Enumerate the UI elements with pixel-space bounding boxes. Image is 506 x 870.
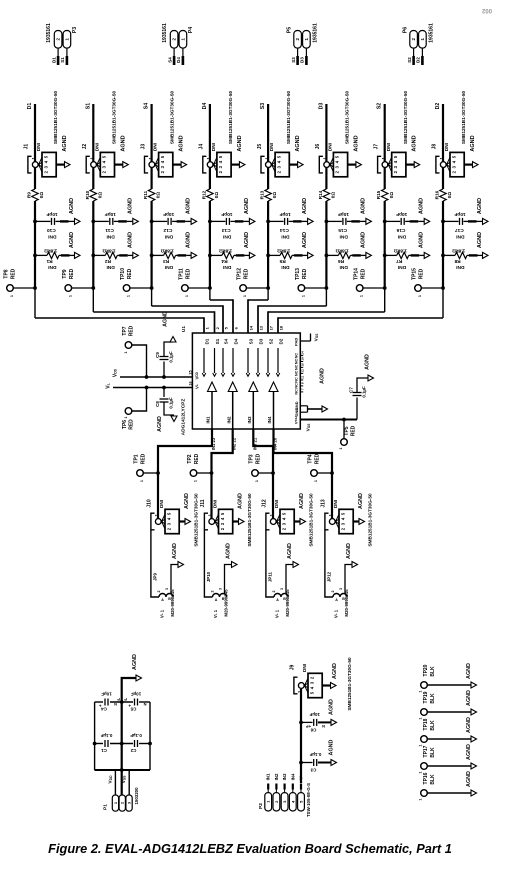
svg-text:C13: C13 — [221, 227, 230, 233]
wire — [171, 565, 178, 595]
wire AGND rail — [122, 678, 136, 795]
svg-text:RED: RED — [255, 453, 261, 464]
svg-text:0Ω: 0Ω — [214, 192, 219, 199]
svg-text:VDD: VDD — [194, 371, 199, 379]
svg-text:10µF: 10µF — [131, 692, 142, 697]
svg-text:C15: C15 — [338, 227, 347, 233]
resistor R1 — [33, 232, 80, 270]
svg-text:AGND: AGND — [157, 416, 163, 432]
svg-text:DNI: DNI — [48, 264, 57, 270]
test point TP1 — [134, 453, 160, 482]
svg-text:AGND: AGND — [477, 232, 483, 248]
svg-text:BLK: BLK — [430, 693, 436, 704]
svg-text:Figure 2. EVAL-ADG1412LEBZ Eva: Figure 2. EVAL-ADG1412LEBZ Evaluation Bo… — [48, 841, 452, 856]
svg-text:DNI: DNI — [333, 500, 338, 508]
resistor R3 — [150, 232, 197, 270]
wire — [212, 429, 233, 473]
svg-text:TP16: TP16 — [423, 772, 429, 784]
svg-text:+: + — [128, 702, 131, 707]
capacitor C2 — [130, 733, 142, 753]
svg-text:R14: R14 — [318, 190, 323, 199]
svg-text:J4: J4 — [199, 144, 205, 150]
label SMB1251B1-3GT30G-50 — [347, 657, 352, 711]
svg-text:C10: C10 — [47, 227, 56, 233]
svg-text:1.8kΩ: 1.8kΩ — [161, 248, 174, 254]
wire — [258, 305, 326, 333]
svg-text:C16: C16 — [396, 227, 405, 233]
connector J10 — [147, 499, 191, 534]
svg-text:AGND: AGND — [127, 198, 133, 214]
test point TP3 — [249, 453, 275, 482]
svg-text:AGND: AGND — [320, 368, 326, 384]
svg-text:SMB1251B1-3GT30G-50: SMB1251B1-3GT30G-50 — [403, 91, 408, 145]
svg-text:AGND: AGND — [127, 232, 133, 248]
svg-text:DNI: DNI — [456, 233, 465, 239]
svg-text:AGND: AGND — [132, 654, 138, 670]
wire — [414, 49, 423, 65]
svg-text:1503200: 1503200 — [134, 787, 139, 805]
label SMB1251B1-3GT30G-50 — [309, 493, 314, 547]
svg-text:DNI: DNI — [211, 143, 216, 151]
wire — [34, 201, 36, 318]
svg-text:S3: S3 — [260, 103, 266, 109]
svg-text:JP11: JP11 — [268, 571, 273, 582]
wire — [272, 473, 274, 519]
svg-text:IN2: IN2 — [226, 416, 231, 424]
test point TP18 — [419, 718, 477, 746]
svg-text:D1: D1 — [27, 103, 33, 110]
net label S2 — [377, 103, 383, 109]
svg-text:VL 1: VL 1 — [213, 609, 218, 618]
wire — [278, 317, 443, 333]
svg-text:0.1µF: 0.1µF — [168, 397, 173, 409]
net label IN4 — [290, 773, 295, 793]
svg-text:1935161: 1935161 — [313, 23, 319, 43]
svg-text:SMB1251B1-3GT30G-50: SMB1251B1-3GT30G-50 — [345, 91, 350, 145]
svg-text:IN4: IN4 — [267, 416, 272, 424]
wire — [210, 299, 233, 333]
svg-text:AGND: AGND — [184, 493, 190, 509]
svg-text:TP5: TP5 — [344, 426, 350, 435]
connector P3 — [46, 23, 78, 48]
net label D2 — [435, 103, 441, 110]
label SMB1251B1-3GT30G-50 — [228, 91, 233, 145]
test point TP5 — [339, 418, 356, 450]
label SMB1251B1-3GT30G-50 — [247, 493, 252, 547]
svg-text:AGND: AGND — [466, 663, 472, 679]
svg-text:1: 1 — [314, 480, 318, 482]
svg-text:J7: J7 — [373, 144, 379, 150]
svg-text:DNI: DNI — [386, 143, 391, 151]
ground — [238, 493, 244, 509]
svg-text:1: 1 — [68, 295, 72, 297]
svg-text:2: 2 — [157, 591, 161, 593]
label SMB1251B1-3GT30G-50 — [286, 91, 291, 145]
svg-text:AGND: AGND — [295, 135, 301, 151]
svg-text:SMB1251B1-3GT30G-50: SMB1251B1-3GT30G-50 — [368, 493, 373, 547]
wire — [132, 345, 149, 379]
svg-text:1: 1 — [124, 351, 128, 353]
svg-text:10µF: 10µF — [101, 692, 112, 697]
ground — [346, 543, 358, 568]
svg-text:SMB1251B1-3GT30G-50: SMB1251B1-3GT30G-50 — [461, 91, 466, 145]
svg-text:A: A — [215, 598, 218, 602]
svg-text:TP4: TP4 — [308, 454, 314, 463]
capacitor C17 — [441, 198, 488, 240]
connector P2 — [258, 783, 311, 817]
wire — [92, 104, 94, 162]
svg-text:VSS: VSS — [305, 423, 311, 431]
svg-text:RED: RED — [69, 268, 75, 279]
svg-text:11: 11 — [301, 375, 305, 379]
svg-text:D2: D2 — [415, 57, 420, 63]
test point TP7 — [122, 325, 135, 353]
wire — [151, 201, 153, 306]
svg-text:RED: RED — [194, 453, 200, 464]
svg-text:R5: R5 — [279, 258, 285, 264]
svg-text:J12: J12 — [262, 499, 268, 508]
svg-text:S2: S2 — [377, 103, 383, 109]
capacitor C13 — [208, 198, 255, 240]
wire — [225, 565, 232, 595]
ground — [466, 690, 472, 706]
svg-text:RED: RED — [129, 325, 135, 336]
svg-text:S1: S1 — [215, 338, 220, 344]
test point TP12 — [237, 268, 270, 297]
wire — [35, 317, 204, 333]
svg-text:RED: RED — [314, 453, 320, 464]
svg-text:2: 2 — [331, 591, 335, 593]
svg-text:DNI: DNI — [106, 233, 115, 239]
resistor R14 — [318, 189, 336, 201]
svg-text:SMB1251B1-3GT30G-50: SMB1251B1-3GT30G-50 — [170, 91, 175, 145]
svg-text:3: 3 — [219, 588, 223, 590]
ground — [466, 663, 472, 679]
net label S2 — [407, 57, 412, 63]
wire — [384, 201, 386, 312]
svg-text:P1: P1 — [103, 804, 109, 810]
svg-text:JP12: JP12 — [327, 571, 332, 582]
svg-text:1.8kΩ: 1.8kΩ — [277, 248, 290, 254]
op-amp U1 ADG1412LYCPZ — [181, 325, 305, 450]
resistor R2 — [91, 232, 138, 270]
svg-text:AGND: AGND — [412, 135, 418, 151]
svg-text:SMB1251B1-3GT30G-50: SMB1251B1-3GT30G-50 — [194, 493, 199, 547]
wire — [209, 168, 211, 189]
svg-text:R8: R8 — [454, 258, 460, 264]
svg-text:D2: D2 — [435, 103, 441, 110]
label SMB1251B1-3GT30G-50 — [111, 91, 116, 145]
net label VL — [106, 383, 112, 388]
resistor R11 — [143, 189, 161, 201]
svg-text:R10: R10 — [85, 190, 90, 199]
svg-text:10pF: 10pF — [46, 211, 57, 217]
wire — [300, 689, 302, 783]
capacitor C1 — [100, 733, 112, 753]
svg-text:1935161: 1935161 — [162, 23, 168, 43]
svg-text:AGND: AGND — [365, 354, 371, 370]
svg-text:VDD: VDD — [108, 775, 114, 784]
ground — [62, 135, 68, 151]
ground — [120, 135, 126, 151]
svg-text:JP9: JP9 — [153, 573, 158, 581]
svg-text:AGND: AGND — [179, 135, 185, 151]
svg-text:AGND: AGND — [244, 232, 250, 248]
svg-text:0.1µF: 0.1µF — [362, 386, 367, 398]
test point TP15 — [412, 268, 445, 297]
svg-text:1: 1 — [418, 295, 422, 297]
svg-text:J1: J1 — [24, 144, 30, 150]
connector P5 — [287, 23, 319, 48]
ground — [132, 654, 142, 681]
svg-text:TP6: TP6 — [122, 420, 128, 429]
svg-text:S4: S4 — [167, 57, 172, 63]
net label VL — [299, 775, 304, 793]
svg-text:18: 18 — [279, 325, 284, 330]
svg-text:0Ω: 0Ω — [331, 192, 336, 199]
ground — [184, 493, 190, 509]
svg-text:1935161: 1935161 — [46, 23, 52, 43]
resistor R6 — [325, 232, 372, 270]
svg-text:R7: R7 — [396, 258, 402, 264]
wire — [93, 311, 214, 333]
svg-text:VSS: VSS — [121, 775, 127, 783]
svg-text:AGND: AGND — [69, 232, 75, 248]
svg-text:RED: RED — [186, 268, 192, 279]
wire — [266, 530, 274, 597]
svg-text:R11: R11 — [143, 190, 148, 199]
svg-text:16: 16 — [188, 381, 192, 385]
wire — [384, 168, 386, 189]
svg-text:RED: RED — [419, 268, 425, 279]
net label D3 — [318, 103, 324, 110]
svg-text:VL 1: VL 1 — [275, 609, 280, 618]
svg-text:C9: C9 — [155, 352, 160, 358]
svg-text:C3: C3 — [310, 767, 316, 772]
svg-text:AGND: AGND — [226, 543, 232, 559]
svg-text:DNI: DNI — [302, 664, 307, 672]
svg-text:0.1µF: 0.1µF — [309, 752, 321, 757]
wire — [34, 104, 36, 162]
capacitor C15 — [325, 198, 372, 240]
svg-text:8: 8 — [301, 382, 305, 384]
svg-text:DNI: DNI — [328, 143, 333, 151]
connector J7 — [373, 143, 419, 177]
label SMB1251B1-3GT30G-50 — [345, 91, 350, 145]
svg-text:AGND: AGND — [360, 198, 366, 214]
svg-text:BLK: BLK — [430, 774, 436, 785]
svg-text:DNI: DNI — [213, 500, 218, 508]
connector J4 — [199, 143, 245, 177]
resistor R16 — [435, 189, 453, 201]
wire VSS — [300, 419, 357, 421]
wire — [298, 49, 307, 65]
wire — [268, 311, 385, 333]
svg-text:1: 1 — [185, 295, 189, 297]
test point TP19 — [419, 691, 477, 719]
svg-text:12: 12 — [301, 369, 305, 373]
connector P6 — [403, 23, 435, 48]
test point TP8 — [4, 268, 37, 297]
svg-text:DNI: DNI — [339, 233, 348, 239]
svg-text:7: 7 — [301, 388, 305, 390]
ground — [466, 771, 472, 787]
svg-text:DNI: DNI — [281, 233, 290, 239]
wire — [325, 530, 333, 597]
capacitor C7 — [348, 354, 373, 419]
svg-text:TP3: TP3 — [249, 454, 255, 463]
svg-text:RED: RED — [127, 268, 133, 279]
net label S4 — [144, 103, 150, 109]
svg-text:0Ω: 0Ω — [156, 192, 161, 199]
svg-text:J13: J13 — [321, 499, 327, 508]
svg-text:1.8kΩ: 1.8kΩ — [452, 248, 465, 254]
net label S1 — [85, 103, 91, 109]
svg-text:002: 002 — [481, 7, 492, 13]
svg-text:R13: R13 — [260, 190, 265, 199]
svg-text:10pF: 10pF — [221, 211, 232, 217]
svg-text:S3: S3 — [291, 57, 296, 63]
svg-text:J6: J6 — [315, 144, 321, 150]
svg-text:J11: J11 — [200, 499, 206, 507]
svg-text:SMB1251B1-3GT30G-50: SMB1251B1-3GT30G-50 — [228, 91, 233, 145]
net label D4 — [202, 103, 208, 110]
svg-text:DNI: DNI — [222, 233, 231, 239]
wire — [92, 201, 94, 312]
svg-text:0Ω: 0Ω — [272, 192, 277, 199]
wire — [34, 168, 36, 189]
net label VDD — [108, 775, 114, 784]
test point TP16 — [419, 772, 477, 800]
test point TP4 — [308, 453, 334, 482]
resistor R13 — [260, 189, 278, 201]
svg-text:AGND: AGND — [172, 543, 178, 559]
wire — [151, 168, 153, 189]
net label D1 — [51, 57, 56, 63]
net label VDD — [113, 368, 119, 377]
connector P1 — [103, 787, 139, 811]
capacitor C4 — [99, 692, 120, 712]
svg-text:C14: C14 — [280, 227, 289, 233]
svg-text:R3: R3 — [163, 258, 169, 264]
svg-text:DNI: DNI — [274, 500, 279, 508]
net label IN1 — [266, 773, 271, 793]
svg-text:NC: NC — [295, 359, 299, 365]
svg-text:R4: R4 — [221, 258, 227, 264]
svg-text:D2: D2 — [278, 338, 283, 344]
svg-text:J5: J5 — [257, 144, 263, 150]
page number 002 — [481, 7, 492, 13]
net label S4 — [167, 57, 172, 63]
svg-text:DNI: DNI — [164, 264, 173, 270]
svg-text:DNI: DNI — [48, 233, 57, 239]
resistor R7 — [383, 232, 430, 270]
svg-text:AGND: AGND — [466, 690, 472, 706]
connector J12 — [262, 499, 306, 534]
svg-text:AGND: AGND — [302, 198, 308, 214]
net label IN2 — [274, 773, 279, 793]
label SMB1251B1-3GT30G-50 — [403, 91, 408, 145]
wire — [442, 104, 444, 162]
svg-text:1: 1 — [419, 771, 423, 773]
svg-text:TP18: TP18 — [423, 718, 429, 730]
svg-text:VL 1: VL 1 — [160, 609, 165, 618]
net label D4 — [176, 57, 181, 63]
wire — [151, 530, 159, 597]
svg-text:DNI: DNI — [444, 143, 449, 151]
svg-text:AGND: AGND — [332, 663, 338, 679]
resistor R10 — [85, 189, 103, 201]
svg-text:J8: J8 — [432, 144, 438, 150]
test point TP13 — [295, 268, 328, 297]
svg-text:TP15: TP15 — [412, 268, 418, 280]
svg-text:DNI: DNI — [153, 143, 158, 151]
svg-text:TP13: TP13 — [295, 268, 301, 280]
svg-text:C12: C12 — [163, 227, 172, 233]
svg-text:NC: NC — [295, 370, 299, 376]
svg-text:N: N — [143, 702, 146, 707]
net label S3 — [291, 57, 296, 63]
svg-text:DNI: DNI — [94, 143, 99, 151]
svg-text:SMB1251B1-3GT30G-50: SMB1251B1-3GT30G-50 — [347, 657, 352, 711]
svg-text:SMB1251B1-3GT30G-50: SMB1251B1-3GT30G-50 — [111, 91, 116, 145]
capacitor C10 — [33, 198, 80, 240]
svg-text:1.8kΩ: 1.8kΩ — [102, 248, 115, 254]
svg-text:1.8kΩ: 1.8kΩ — [44, 248, 57, 254]
svg-text:R1: R1 — [46, 258, 52, 264]
svg-text:AGND: AGND — [466, 744, 472, 760]
connector J1 — [24, 143, 70, 177]
svg-text:1: 1 — [419, 798, 423, 800]
wire — [151, 104, 153, 162]
capacitor C9 — [155, 311, 176, 379]
svg-text:0Ω: 0Ω — [389, 192, 394, 199]
wire — [158, 429, 212, 473]
svg-text:P6: P6 — [403, 27, 409, 33]
svg-text:1: 1 — [419, 744, 423, 746]
svg-text:SMB1251B1-3GT30G-50: SMB1251B1-3GT30G-50 — [247, 493, 252, 547]
ground — [172, 543, 184, 568]
svg-text:VL: VL — [194, 384, 199, 389]
connector J11 — [200, 499, 244, 533]
svg-text:2: 2 — [272, 591, 276, 593]
svg-text:10µF: 10µF — [309, 712, 320, 717]
svg-text:NC: NC — [295, 383, 299, 389]
svg-text:TP14: TP14 — [353, 268, 359, 280]
svg-text:S2: S2 — [407, 57, 412, 63]
label SMB1251B1-3GT30G-50 — [368, 493, 373, 547]
svg-text:R15: R15 — [376, 190, 381, 199]
svg-text:RED: RED — [11, 268, 17, 279]
wire — [325, 168, 327, 189]
svg-text:13: 13 — [259, 325, 264, 330]
svg-text:RED: RED — [302, 268, 308, 279]
svg-text:AGND: AGND — [238, 493, 244, 509]
svg-text:C8: C8 — [155, 401, 160, 407]
svg-text:IN4: IN4 — [290, 773, 295, 780]
svg-text:10pF: 10pF — [338, 211, 349, 217]
svg-text:DNI: DNI — [397, 264, 406, 270]
ground — [353, 135, 359, 151]
net label VSS — [314, 333, 320, 341]
wire — [267, 201, 269, 300]
ground — [332, 663, 338, 679]
ground — [295, 135, 301, 151]
svg-text:P3: P3 — [72, 27, 78, 33]
wire VDD — [120, 376, 192, 378]
svg-text:16: 16 — [301, 363, 305, 367]
svg-text:10pF: 10pF — [396, 211, 407, 217]
